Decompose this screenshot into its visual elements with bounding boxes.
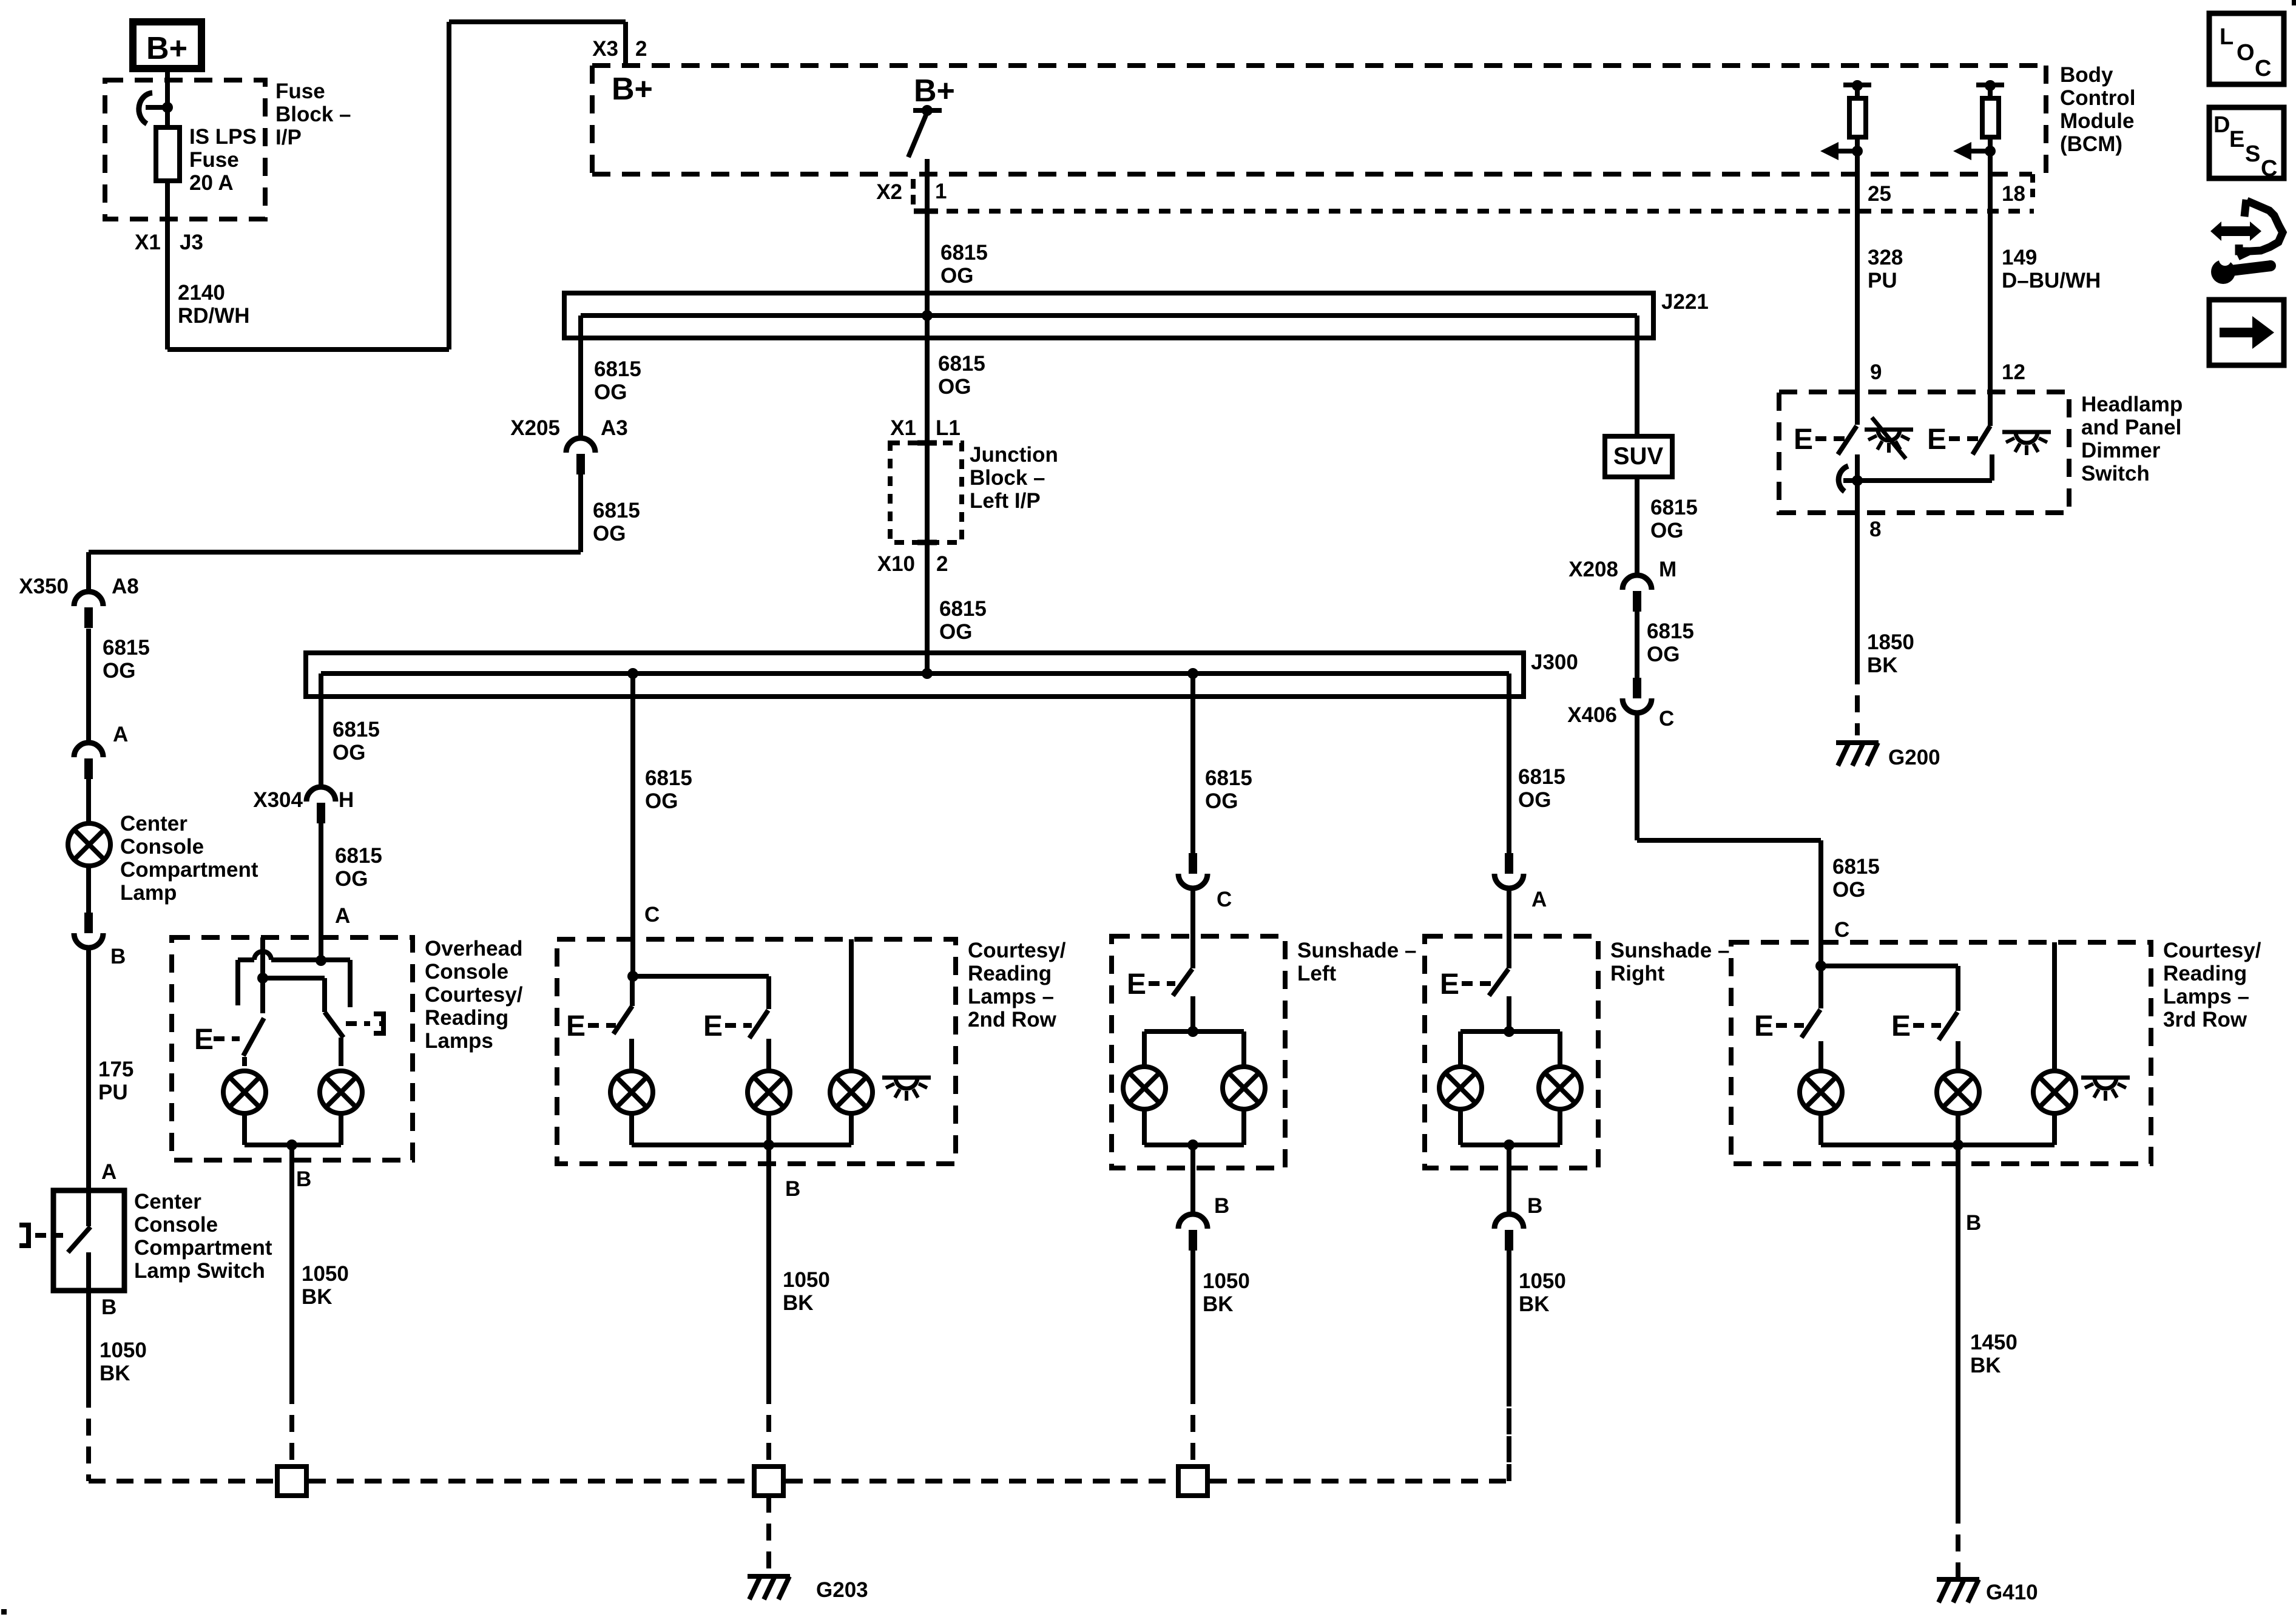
svg-text:PU: PU bbox=[1868, 269, 1897, 292]
ground G200 bbox=[1836, 743, 1940, 769]
svg-text:E: E bbox=[566, 1010, 586, 1042]
overhead console lamp 2 bbox=[320, 1038, 362, 1113]
svg-text:149: 149 bbox=[2002, 246, 2037, 269]
wire B+ feed 6815 OG bbox=[925, 159, 930, 673]
wire 175 PU bbox=[86, 948, 91, 1190]
svg-text:B+: B+ bbox=[612, 72, 653, 107]
wire 1050 BK label 2nd row bbox=[783, 1268, 830, 1315]
svg-text:1050: 1050 bbox=[1519, 1269, 1566, 1293]
label 12 bbox=[2002, 360, 2025, 384]
wire fuse to BCM bbox=[167, 22, 626, 349]
wire X406 to 3rd row box bbox=[1637, 713, 1821, 942]
wire 2140 RD/WH label bbox=[178, 281, 250, 328]
svg-text:18: 18 bbox=[2002, 182, 2025, 206]
svg-text:M: M bbox=[1659, 558, 1676, 581]
wire 6815 OG label below X304 bbox=[335, 844, 382, 891]
wire 6815 OG label sunshade right bbox=[1518, 765, 1565, 812]
wire 149 D-BU/WH label bbox=[2002, 246, 2101, 292]
svg-text:E: E bbox=[194, 1024, 214, 1056]
wire SUV to X208 bbox=[1635, 477, 1639, 575]
svg-text:X2: X2 bbox=[876, 180, 902, 204]
svg-text:BK: BK bbox=[1867, 653, 1898, 677]
svg-text:Console: Console bbox=[120, 835, 204, 859]
svg-text:B: B bbox=[785, 1177, 800, 1201]
svg-text:6815: 6815 bbox=[939, 597, 987, 621]
connector X205 A3 bbox=[510, 416, 628, 474]
wire J221 to X205 bbox=[578, 316, 583, 438]
label B 2nd row bbox=[785, 1177, 800, 1201]
wire 1050 BK overhead bbox=[289, 1160, 294, 1467]
svg-text:6815: 6815 bbox=[1518, 765, 1565, 789]
ground G410 bbox=[1937, 1579, 2038, 1604]
svg-text:E: E bbox=[1754, 1010, 1774, 1042]
svg-text:328: 328 bbox=[1868, 246, 1903, 269]
sunshade right box bbox=[1425, 936, 1598, 1168]
svg-text:OG: OG bbox=[939, 620, 972, 644]
wire 6815 OG label left of J221 bbox=[594, 357, 641, 404]
label Fuse Block - I/P bbox=[275, 79, 351, 149]
svg-text:Overhead: Overhead bbox=[425, 937, 522, 960]
connector B sunshade left bbox=[1178, 1168, 1207, 1251]
svg-text:Console: Console bbox=[134, 1213, 218, 1237]
svg-text:Block –: Block – bbox=[275, 103, 351, 126]
svg-text:A3: A3 bbox=[601, 416, 628, 440]
svg-text:Center: Center bbox=[120, 812, 187, 836]
label B sunshade left bbox=[1214, 1194, 1229, 1218]
wire 6815 OG label below SUV bbox=[1650, 496, 1698, 542]
BCM box bbox=[592, 66, 2046, 202]
svg-text:Lamp: Lamp bbox=[120, 881, 177, 905]
svg-text:B+: B+ bbox=[146, 31, 187, 66]
svg-text:6815: 6815 bbox=[1832, 855, 1880, 879]
svg-text:175: 175 bbox=[98, 1058, 133, 1081]
wire 6815 OG label below X205 bbox=[593, 499, 640, 545]
label Center Console Compartment Lamp Switch bbox=[134, 1190, 272, 1283]
svg-text:D: D bbox=[2213, 112, 2230, 138]
svg-text:Headlamp: Headlamp bbox=[2081, 393, 2183, 416]
3rd row lamp return rail bbox=[1821, 1113, 2055, 1164]
svg-text:O: O bbox=[2237, 40, 2255, 66]
label A overhead console bbox=[335, 904, 350, 928]
icon LOC bbox=[2209, 13, 2284, 84]
svg-text:X304: X304 bbox=[253, 788, 303, 812]
svg-text:E: E bbox=[1927, 424, 1947, 456]
courtesy reading lamps 2nd row box bbox=[557, 939, 956, 1164]
svg-text:Sunshade –: Sunshade – bbox=[1297, 939, 1416, 962]
svg-text:Center: Center bbox=[134, 1190, 201, 1214]
wire X208 to X406 bbox=[1635, 612, 1639, 678]
svg-text:Reading: Reading bbox=[425, 1006, 508, 1030]
wire 1050 BK sunshade left bbox=[1190, 1251, 1195, 1467]
wire BCM pin 25 to dimmer pin 9 bbox=[1855, 151, 1860, 392]
svg-text:6815: 6815 bbox=[1647, 619, 1694, 643]
svg-text:L1: L1 bbox=[936, 416, 961, 440]
icon next arrow bbox=[2209, 300, 2284, 365]
svg-text:BK: BK bbox=[302, 1285, 333, 1309]
svg-text:OG: OG bbox=[938, 375, 971, 399]
label 9 bbox=[1870, 360, 1882, 384]
svg-text:1050: 1050 bbox=[1203, 1269, 1250, 1293]
svg-text:Lamp Switch: Lamp Switch bbox=[134, 1259, 265, 1283]
svg-text:B: B bbox=[1966, 1211, 1981, 1235]
wire into sunshade right box bbox=[1507, 888, 1511, 968]
svg-text:BK: BK bbox=[1203, 1292, 1234, 1316]
wire 1450 BK label bbox=[1970, 1331, 2017, 1377]
svg-text:X208: X208 bbox=[1568, 558, 1618, 581]
svg-text:BK: BK bbox=[783, 1291, 814, 1315]
svg-text:Compartment: Compartment bbox=[120, 858, 258, 882]
wire 6815 OG label below junction block bbox=[939, 597, 987, 644]
label Headlamp and Panel Dimmer Switch bbox=[2081, 393, 2183, 485]
wire X205 to X350 bbox=[89, 474, 581, 592]
label C 2nd row bbox=[644, 903, 660, 927]
label IS LPS Fuse 20A bbox=[189, 125, 257, 195]
wire 6815 OG label left column bbox=[103, 636, 150, 683]
2nd row switch 2 bbox=[703, 1010, 768, 1042]
svg-text:(BCM): (BCM) bbox=[2060, 132, 2122, 156]
wire 6815 OG label 2nd row bbox=[645, 766, 692, 813]
3rd row switch 1 bbox=[1754, 966, 1821, 1042]
svg-text:6815: 6815 bbox=[1205, 766, 1252, 790]
3rd row lamp 3 with illumination bbox=[2033, 942, 2130, 1113]
svg-text:6815: 6815 bbox=[940, 241, 988, 265]
svg-text:20 A: 20 A bbox=[189, 171, 234, 195]
svg-text:G200: G200 bbox=[1888, 746, 1940, 769]
svg-text:6815: 6815 bbox=[333, 718, 380, 741]
svg-text:6815: 6815 bbox=[103, 636, 150, 660]
wire 6815 OG label sunshade left bbox=[1205, 766, 1252, 813]
svg-text:2nd Row: 2nd Row bbox=[968, 1008, 1057, 1031]
power feed B+ box bbox=[133, 22, 201, 69]
svg-text:C: C bbox=[644, 903, 660, 927]
wire 6815 OG label 3rd row bbox=[1832, 855, 1880, 902]
svg-text:Junction: Junction bbox=[970, 443, 1058, 467]
3rd row feed node bbox=[1815, 942, 1958, 1011]
svg-text:J3: J3 bbox=[180, 231, 203, 254]
label Courtesy Reading Lamps 3rd Row bbox=[2163, 939, 2261, 1031]
svg-text:Switch: Switch bbox=[2081, 462, 2150, 485]
svg-text:J300: J300 bbox=[1531, 650, 1578, 674]
label Overhead Console Courtesy Reading Lamps bbox=[425, 937, 523, 1053]
svg-text:L: L bbox=[2220, 24, 2234, 50]
splice pack J300 bbox=[306, 653, 1524, 697]
courtesy reading lamps 3rd row box bbox=[1731, 942, 2151, 1164]
wire J221 to SUV box bbox=[1635, 316, 1639, 436]
label J221 bbox=[1661, 290, 1709, 314]
ground bus wire bbox=[89, 1389, 1509, 1481]
wire J300 to X304 bbox=[319, 673, 323, 787]
svg-text:2140: 2140 bbox=[178, 281, 225, 305]
wire 328 PU label bbox=[1868, 246, 1903, 292]
label Body Control Module (BCM) bbox=[2060, 63, 2135, 156]
wire 1850 BK label bbox=[1867, 630, 1914, 677]
wire 1050 BK 2nd row bbox=[766, 1164, 771, 1467]
icon DESC bbox=[2209, 107, 2284, 181]
icon connector service bbox=[2210, 200, 2283, 284]
svg-text:B: B bbox=[110, 945, 126, 968]
svg-text:X350: X350 bbox=[19, 575, 69, 598]
svg-text:6815: 6815 bbox=[593, 499, 640, 522]
label Center Console Compartment Lamp bbox=[120, 812, 258, 905]
svg-text:A: A bbox=[335, 904, 350, 928]
svg-text:B: B bbox=[1527, 1194, 1542, 1218]
wire 1050 BK label overhead bbox=[302, 1262, 349, 1309]
svg-text:X10: X10 bbox=[877, 552, 915, 576]
svg-text:B: B bbox=[296, 1167, 311, 1191]
BCM resistor left bbox=[1820, 80, 1871, 160]
ground splice junction 1 bbox=[277, 1467, 306, 1496]
label 25 bbox=[1868, 182, 1891, 206]
dimmer internal node bbox=[1838, 454, 1992, 513]
label B 3rd row bbox=[1966, 1211, 1981, 1235]
svg-text:H: H bbox=[339, 788, 354, 812]
3rd row lamp 2 bbox=[1937, 1041, 1979, 1113]
dimmer panel icon bbox=[2002, 432, 2051, 455]
lamp switch actuator bracket bbox=[19, 1225, 63, 1246]
svg-text:OG: OG bbox=[593, 522, 626, 545]
svg-text:OG: OG bbox=[1647, 643, 1680, 666]
wire 6815 OG label above junction block bbox=[938, 352, 985, 399]
overhead console switch 1 bbox=[194, 1018, 264, 1056]
svg-text:OG: OG bbox=[940, 264, 973, 288]
svg-text:G410: G410 bbox=[1986, 1581, 2038, 1604]
svg-text:Reading: Reading bbox=[2163, 962, 2247, 985]
wire J300 to sunshade left bbox=[1190, 673, 1195, 853]
wire BCM pin 18 to dimmer pin 12 bbox=[1988, 151, 1993, 426]
svg-text:C: C bbox=[2255, 56, 2271, 81]
svg-text:BK: BK bbox=[1519, 1292, 1550, 1316]
wire 1050 BK left column bbox=[86, 1291, 91, 1481]
svg-text:25: 25 bbox=[1868, 182, 1891, 206]
2nd row lamp 1 bbox=[610, 1039, 653, 1113]
svg-text:Body: Body bbox=[2060, 63, 2113, 87]
svg-text:B: B bbox=[1214, 1194, 1229, 1218]
center console compartment lamp switch box bbox=[53, 1190, 124, 1291]
connector X304 H bbox=[253, 787, 354, 823]
svg-text:OG: OG bbox=[1832, 878, 1865, 902]
svg-text:B+: B+ bbox=[914, 73, 955, 109]
ground G203 bbox=[748, 1576, 868, 1602]
wire 1050 BK sunshade right bbox=[1507, 1251, 1511, 1481]
svg-text:OG: OG bbox=[1650, 519, 1683, 542]
svg-text:9: 9 bbox=[1870, 360, 1882, 384]
svg-text:12: 12 bbox=[2002, 360, 2025, 384]
svg-text:X1: X1 bbox=[135, 231, 161, 254]
svg-text:OG: OG bbox=[333, 741, 365, 765]
wire X304 to overhead console bbox=[319, 823, 323, 960]
svg-text:6815: 6815 bbox=[645, 766, 692, 790]
svg-text:1050: 1050 bbox=[100, 1338, 147, 1362]
svg-text:A: A bbox=[1531, 888, 1547, 911]
svg-text:Control: Control bbox=[2060, 86, 2135, 110]
2nd row lamp 2 bbox=[748, 1039, 790, 1113]
svg-text:Left: Left bbox=[1297, 962, 1337, 985]
svg-text:6815: 6815 bbox=[1650, 496, 1698, 519]
svg-text:Dimmer: Dimmer bbox=[2081, 439, 2161, 462]
dimmer panel icon crossed bbox=[1865, 417, 1913, 459]
label C 3rd row bbox=[1834, 918, 1849, 942]
svg-text:1850: 1850 bbox=[1867, 630, 1914, 654]
svg-text:X205: X205 bbox=[510, 416, 560, 440]
wire A to lamp bbox=[86, 779, 91, 823]
wire J300 to sunshade right bbox=[1507, 673, 1511, 853]
svg-text:Courtesy/: Courtesy/ bbox=[968, 939, 1066, 962]
svg-text:Lamps: Lamps bbox=[425, 1029, 493, 1053]
label X3 2 bbox=[592, 37, 647, 61]
svg-text:Reading: Reading bbox=[968, 962, 1052, 985]
3rd row switch 2 bbox=[1891, 1010, 1957, 1042]
label Sunshade - Left bbox=[1297, 939, 1416, 985]
wire 1850 BK bbox=[1855, 513, 1860, 735]
fuse IS LPS 20A bbox=[139, 69, 180, 219]
label 18 bbox=[2002, 182, 2025, 206]
ground splice junction 3 bbox=[1178, 1467, 1207, 1496]
label X1 L1 bbox=[890, 416, 961, 440]
connector A center console lamp bbox=[74, 723, 128, 779]
svg-text:6815: 6815 bbox=[335, 844, 382, 868]
svg-text:PU: PU bbox=[98, 1081, 128, 1104]
svg-text:6815: 6815 bbox=[594, 357, 641, 381]
wire 1050 BK label sunshade left bbox=[1203, 1269, 1250, 1316]
wire 1450 BK 3rd row bbox=[1956, 1164, 1960, 1578]
svg-text:Fuse: Fuse bbox=[275, 79, 325, 103]
svg-text:BK: BK bbox=[1970, 1354, 2001, 1377]
svg-text:OG: OG bbox=[1518, 788, 1551, 812]
svg-text:X406: X406 bbox=[1567, 703, 1617, 727]
svg-text:8: 8 bbox=[1869, 518, 1881, 541]
headlamp and panel dimmer switch box bbox=[1779, 392, 2069, 513]
svg-text:Block –: Block – bbox=[970, 466, 1045, 490]
svg-text:Console: Console bbox=[425, 960, 508, 984]
svg-text:Module: Module bbox=[2060, 109, 2134, 133]
svg-text:C: C bbox=[1834, 918, 1849, 942]
SUV option box bbox=[1605, 436, 1672, 477]
connector X208 M bbox=[1568, 558, 1676, 612]
wire 6815 OG label above X304 bbox=[333, 718, 380, 765]
svg-text:RD/WH: RD/WH bbox=[178, 304, 250, 328]
wire 6815 OG label above X406 bbox=[1647, 619, 1694, 666]
label A lamp switch bbox=[101, 1160, 116, 1184]
3rd row lamp 1 bbox=[1800, 1041, 1842, 1113]
svg-text:Fuse: Fuse bbox=[189, 148, 239, 172]
svg-text:1450: 1450 bbox=[1970, 1331, 2017, 1354]
center console compartment lamp bbox=[68, 823, 110, 866]
wire J300 to 2nd row lamps bbox=[630, 673, 635, 976]
svg-text:SUV: SUV bbox=[1613, 443, 1664, 470]
svg-text:C: C bbox=[2261, 156, 2277, 181]
wire lamp to connector B bbox=[86, 866, 91, 913]
svg-text:Sunshade –: Sunshade – bbox=[1610, 939, 1729, 962]
svg-text:E: E bbox=[1440, 968, 1459, 1001]
connector X350 A8 bbox=[19, 575, 139, 628]
svg-text:X3: X3 bbox=[592, 37, 618, 61]
label Sunshade - Right bbox=[1610, 939, 1729, 985]
BCM B+ node and switch bbox=[908, 73, 955, 157]
svg-text:X1: X1 bbox=[890, 416, 916, 440]
wire into sunshade left box bbox=[1190, 888, 1195, 968]
2nd row lamp return rail bbox=[632, 1113, 851, 1164]
sunshade right lamp circuit bbox=[1439, 996, 1581, 1168]
svg-text:Courtesy/: Courtesy/ bbox=[2163, 939, 2261, 962]
dimmer switch 1 bbox=[1794, 392, 1857, 456]
svg-text:1050: 1050 bbox=[783, 1268, 830, 1292]
svg-text:S: S bbox=[2245, 141, 2260, 167]
svg-text:IS LPS: IS LPS bbox=[189, 125, 257, 149]
connector A sunshade right bbox=[1494, 853, 1547, 911]
wire X350 to lamp connector A bbox=[86, 629, 91, 743]
BCM resistor right bbox=[1953, 80, 2004, 160]
svg-text:J221: J221 bbox=[1661, 290, 1709, 314]
label Junction Block - Left I/P bbox=[970, 443, 1058, 513]
svg-text:E: E bbox=[703, 1010, 723, 1042]
svg-text:Lamps –: Lamps – bbox=[2163, 985, 2249, 1008]
connector C sunshade left bbox=[1178, 853, 1232, 911]
svg-text:Courtesy/: Courtesy/ bbox=[425, 983, 523, 1007]
2nd row switch 1 bbox=[566, 976, 632, 1042]
svg-text:E: E bbox=[1794, 424, 1813, 456]
overhead console lamp return bbox=[245, 1113, 341, 1160]
svg-text:C: C bbox=[1217, 888, 1232, 911]
label B+ in BCM bbox=[612, 72, 653, 107]
svg-text:G203: G203 bbox=[816, 1578, 868, 1602]
junction block - left I/P box bbox=[890, 443, 962, 542]
svg-text:A: A bbox=[101, 1160, 116, 1184]
svg-text:2: 2 bbox=[936, 552, 948, 576]
label B sunshade right bbox=[1527, 1194, 1542, 1218]
svg-text:I/P: I/P bbox=[275, 126, 302, 149]
wire 6815 OG label below X2 bbox=[940, 241, 988, 288]
2nd row lamp 3 with illumination bbox=[830, 939, 931, 1113]
svg-text:B: B bbox=[101, 1295, 116, 1319]
overhead console box bbox=[172, 937, 413, 1160]
page mark top right bbox=[2292, 0, 2296, 5]
svg-text:6815: 6815 bbox=[938, 352, 985, 376]
sunshade left switch bbox=[1127, 968, 1192, 1001]
wire 1050 BK label left column bbox=[100, 1338, 147, 1385]
svg-text:3rd Row: 3rd Row bbox=[2163, 1008, 2247, 1031]
wire 175 PU label bbox=[98, 1058, 133, 1104]
svg-text:D–BU/WH: D–BU/WH bbox=[2002, 269, 2101, 292]
label J300 bbox=[1531, 650, 1578, 674]
connector B center console lamp bbox=[74, 913, 126, 968]
svg-text:OG: OG bbox=[103, 659, 135, 683]
svg-text:1: 1 bbox=[935, 180, 947, 203]
svg-text:Lamps –: Lamps – bbox=[968, 985, 1054, 1008]
svg-text:Compartment: Compartment bbox=[134, 1236, 272, 1260]
2nd row feed node bbox=[627, 971, 769, 1009]
lamp switch blade bbox=[68, 1190, 90, 1291]
overhead console switch 2 bbox=[325, 1012, 386, 1038]
svg-text:A: A bbox=[113, 723, 128, 746]
dimmer switch 2 bbox=[1927, 424, 1990, 456]
label X10 2 bbox=[877, 552, 948, 576]
svg-text:Right: Right bbox=[1610, 962, 1665, 985]
page mark bottom left bbox=[1, 1609, 7, 1615]
label X2 1 bbox=[876, 180, 947, 204]
overhead console internal feed node bbox=[238, 937, 350, 1013]
svg-text:A8: A8 bbox=[112, 575, 139, 598]
sunshade left lamp circuit bbox=[1123, 996, 1265, 1168]
svg-text:OG: OG bbox=[645, 789, 678, 813]
sunshade right switch bbox=[1440, 968, 1508, 1001]
svg-text:E: E bbox=[1127, 968, 1146, 1001]
X2 connector line bbox=[913, 179, 2034, 211]
svg-text:and Panel: and Panel bbox=[2081, 416, 2181, 439]
label 8 bbox=[1869, 518, 1881, 541]
svg-text:E: E bbox=[1891, 1010, 1911, 1042]
label X1 J3 bbox=[135, 231, 203, 254]
sunshade left box bbox=[1112, 936, 1285, 1168]
